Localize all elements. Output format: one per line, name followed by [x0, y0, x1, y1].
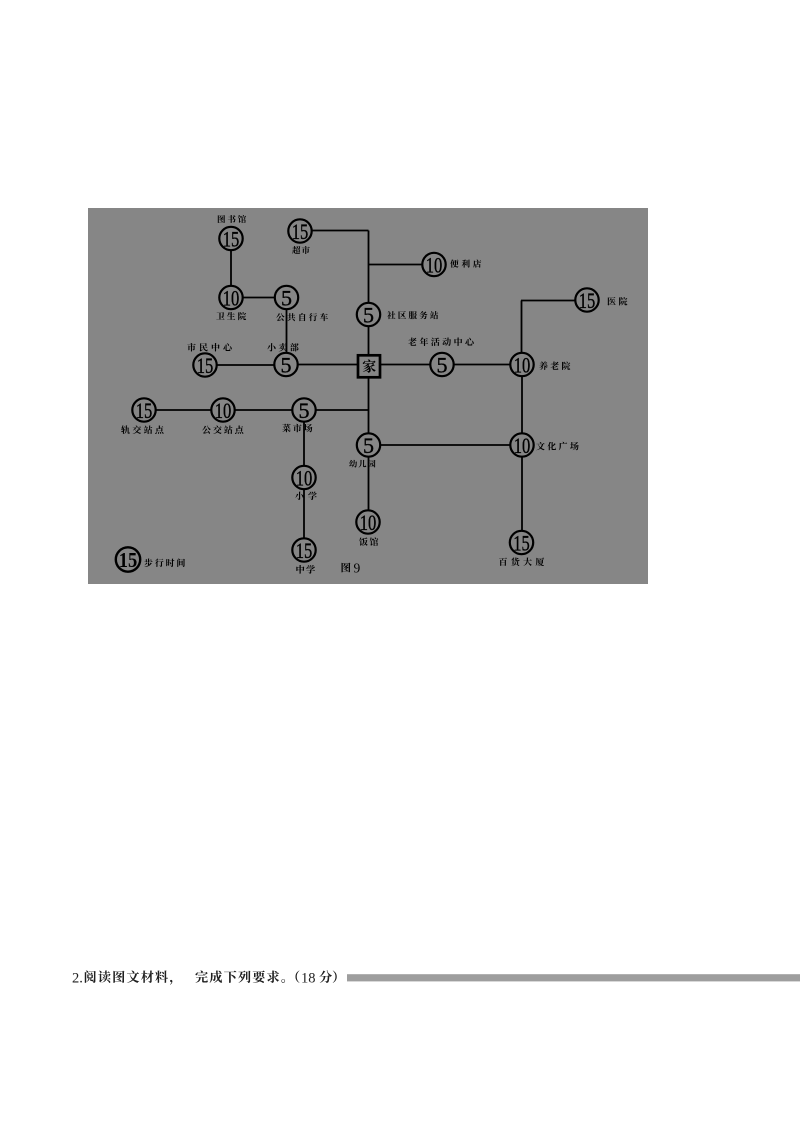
wire hospital corner vertical to nursing home — [521, 301, 523, 355]
svg-text:5: 5 — [281, 286, 292, 311]
node library circle 15 — [219, 227, 242, 252]
svg-text:5: 5 — [281, 353, 292, 378]
wire home-kindergarten vertical — [368, 375, 370, 435]
svg-text:15: 15 — [292, 219, 309, 244]
label bus stop (公交站点) — [202, 425, 243, 433]
node primary school circle 10 — [292, 466, 315, 491]
node restaurant circle 10 — [356, 510, 379, 535]
wire service station to home vertical — [368, 325, 370, 355]
wire rail-bus horizontal — [156, 409, 213, 411]
svg-text:2.: 2. — [72, 971, 83, 987]
label community service station (社区服务站) — [387, 311, 438, 319]
wire primary-middle school vertical — [303, 489, 305, 538]
label market (菜市场) — [282, 424, 312, 432]
question text: 2.阅读图文材料，完成下列要求。（18 分） — [72, 970, 337, 986]
node rail transit stop circle 15 — [132, 398, 155, 423]
label civic center (市民中心) — [187, 343, 231, 351]
label hospital (医院) — [608, 297, 628, 305]
wire supermarket-east horizontal — [311, 230, 369, 232]
svg-text:18: 18 — [301, 971, 316, 987]
label supermarket (超市) — [292, 246, 310, 254]
wire branch to convenience store — [369, 264, 424, 266]
home square node (家) — [358, 355, 380, 377]
figure caption (图 9) — [342, 561, 361, 576]
svg-text:5: 5 — [363, 433, 374, 458]
label restaurant (饭馆) — [359, 537, 378, 546]
svg-text:10: 10 — [426, 253, 443, 278]
node market circle 5 — [292, 398, 315, 423]
wire shop-home horizontal — [297, 364, 358, 366]
svg-text:10: 10 — [215, 398, 232, 423]
label kindergarten (幼儿园) — [349, 460, 375, 468]
node small shop circle 5 — [274, 353, 297, 378]
node senior activity center circle 5 — [430, 353, 453, 378]
wire home-senior center horizontal — [378, 364, 431, 366]
wire bicycle to shop vertical — [286, 308, 288, 354]
svg-text:9: 9 — [354, 561, 361, 576]
node supermarket circle 15 — [288, 219, 311, 244]
legend circle 15 (walking time) — [116, 547, 140, 572]
wire kindergarten-culture square horizontal — [380, 444, 512, 446]
wire library-clinic vertical — [230, 249, 232, 287]
label public bicycle (公共自行车) — [276, 313, 328, 321]
svg-text:10: 10 — [223, 286, 240, 311]
node department store circle 15 — [510, 531, 533, 556]
node clinic circle 10 — [219, 286, 242, 311]
label culture square (文化广场) — [536, 442, 578, 450]
svg-text:15: 15 — [579, 288, 596, 313]
label small shop (小卖部) — [267, 343, 298, 351]
svg-text:10: 10 — [514, 433, 531, 458]
svg-text:15: 15 — [223, 227, 240, 252]
label library (图书馆) — [218, 215, 246, 223]
label department store (百货大厦) — [499, 557, 544, 566]
label rail transit stop (轨交站点) — [121, 425, 163, 434]
node public bicycle circle 5 — [275, 286, 298, 311]
node culture square circle 10 — [510, 433, 533, 458]
node convenience store circle 10 — [422, 253, 445, 278]
svg-text:10: 10 — [514, 353, 531, 378]
svg-text:15: 15 — [296, 538, 313, 563]
node bus stop circle 10 — [211, 398, 234, 423]
node kindergarten circle 5 — [357, 433, 380, 458]
svg-text:10: 10 — [360, 510, 377, 535]
node hospital circle 15 — [575, 288, 598, 313]
node nursing home circle 10 — [510, 353, 533, 378]
svg-text:5: 5 — [299, 398, 310, 423]
wire bus-market horizontal — [235, 409, 294, 411]
label senior activity center (老年活动中心) — [408, 337, 474, 346]
svg-text:15: 15 — [119, 548, 138, 572]
label middle school (中学) — [296, 565, 315, 574]
node middle school circle 15 — [292, 538, 315, 563]
node civic center circle 15 — [193, 353, 216, 378]
wire clinic-bicycle horizontal — [231, 297, 287, 299]
figure gray panel background — [88, 208, 648, 584]
legend label (步行时间) — [144, 558, 185, 567]
wire nursing home-culture square vertical — [521, 376, 523, 435]
label clinic (卫生院) — [216, 312, 246, 320]
wire culture square-department store vertical — [521, 456, 523, 532]
svg-text:5: 5 — [437, 353, 448, 378]
wire hospital-west horizontal — [521, 300, 576, 302]
label primary school (小学) — [295, 492, 317, 500]
svg-text:15: 15 — [136, 398, 153, 423]
gray underline bar after question text — [347, 974, 800, 981]
svg-text:15: 15 — [197, 353, 214, 378]
svg-text:5: 5 — [363, 303, 374, 328]
wire senior center-nursing home horizontal — [453, 364, 511, 366]
wire civic center-shop horizontal — [216, 364, 275, 366]
svg-text:15: 15 — [513, 531, 530, 556]
wire main north vertical (supermarket line down to service station) — [368, 231, 370, 305]
label convenience store (便利店) — [450, 259, 481, 267]
svg-text:10: 10 — [296, 466, 313, 491]
wire market-primary school vertical — [303, 421, 305, 467]
node community service station circle 5 — [357, 303, 380, 328]
label nursing home (养老院) — [539, 361, 570, 370]
wire kindergarten-restaurant vertical — [368, 456, 370, 511]
wire market-east horizontal to main vertical — [315, 409, 369, 411]
